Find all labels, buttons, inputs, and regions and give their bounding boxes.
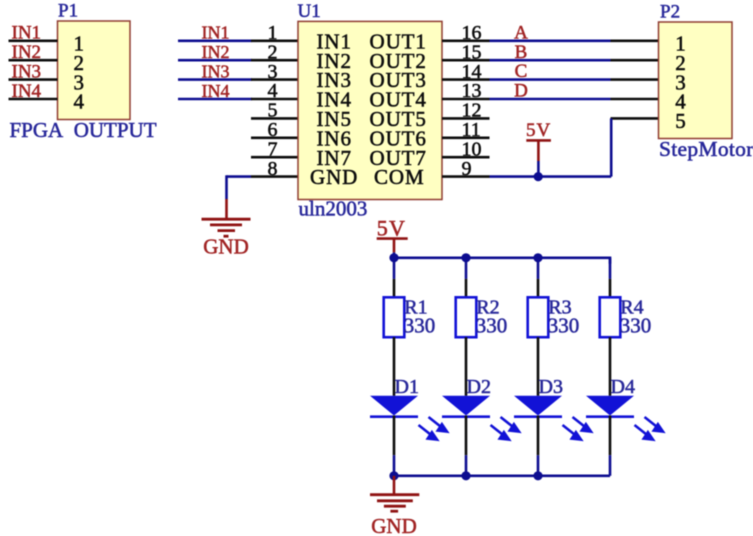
LED D3	[514, 396, 562, 416]
svg-text:4: 4	[74, 90, 85, 114]
LED D4 light arrows	[635, 417, 664, 440]
svg-text:9: 9	[462, 158, 472, 180]
wire COM net horizontal	[490, 175, 612, 178]
LED D4	[586, 396, 634, 416]
svg-text:GND: GND	[371, 514, 417, 536]
resistor R1	[384, 297, 405, 337]
U1 pin 7 stub	[251, 156, 298, 159]
wire P1 pin 4	[9, 98, 58, 101]
U1 pin 9 stub	[442, 175, 490, 178]
P2 pin 2 stub	[611, 59, 659, 62]
P2 pin 5 stub	[611, 117, 659, 120]
svg-text:D1: D1	[395, 376, 419, 398]
svg-text:330: 330	[620, 314, 652, 338]
LED D2 light arrows	[491, 417, 520, 440]
wire bottom rail	[394, 474, 610, 477]
resistor R4	[600, 297, 621, 337]
connector P1	[58, 21, 131, 120]
LED D2	[442, 396, 490, 416]
LED D3 light arrows	[563, 417, 592, 440]
svg-text:uln2003: uln2003	[299, 197, 368, 221]
U1 pin 15 stub	[442, 59, 490, 62]
svg-text:330: 330	[404, 314, 436, 338]
wire U1 pin 8 to ground	[227, 175, 252, 178]
svg-text:StepMotor: StepMotor	[659, 137, 753, 161]
wire top 5V rail	[394, 256, 610, 259]
resistor R2	[456, 297, 477, 337]
wire col 3 rail to R3	[537, 258, 540, 279]
svg-text:IN3: IN3	[12, 61, 42, 82]
connector P2	[659, 22, 733, 139]
svg-text:GND: GND	[203, 235, 249, 259]
U1 pin 10 stub	[442, 156, 490, 159]
wire P1 pin 3	[9, 78, 58, 81]
svg-text:IN2: IN2	[12, 42, 42, 63]
wire col 4 rail to R4	[609, 258, 612, 279]
svg-text:IN1: IN1	[12, 23, 42, 44]
svg-text:IN1: IN1	[202, 23, 230, 43]
op-amp U1 body	[298, 21, 442, 199]
svg-text:IN4: IN4	[12, 81, 42, 102]
junction top rail col 1	[389, 253, 398, 262]
svg-text:IN4: IN4	[202, 81, 230, 101]
P2 pin 4 stub	[611, 98, 659, 101]
svg-text:330: 330	[548, 314, 580, 338]
U1 pin 2 stub	[251, 59, 298, 62]
wire net IN4 to U1	[178, 98, 252, 101]
svg-text:5: 5	[675, 109, 686, 133]
wire R1 to D1	[393, 337, 396, 396]
svg-text:U1: U1	[298, 1, 321, 22]
junction top rail col 2	[461, 253, 470, 262]
ground GND (U1)	[225, 199, 228, 219]
ground GND (LED rail)	[393, 476, 396, 495]
wire R2 to D2	[465, 337, 468, 396]
wire net IN3 to U1	[178, 78, 252, 81]
wire R4 to D4	[609, 337, 612, 396]
U1 pin 4 stub	[251, 98, 298, 101]
svg-text:C: C	[515, 61, 528, 82]
wire net B	[490, 59, 611, 62]
svg-text:COM: COM	[374, 165, 425, 189]
svg-text:8: 8	[268, 158, 278, 180]
U1 pin 3 stub	[251, 78, 298, 81]
junction bottom rail col 1	[389, 471, 398, 480]
svg-text:D: D	[514, 81, 528, 102]
svg-text:5V: 5V	[377, 216, 406, 241]
LED D1	[370, 396, 418, 416]
svg-text:FPGA OUTPUT: FPGA OUTPUT	[10, 118, 157, 142]
svg-text:GND: GND	[310, 165, 358, 189]
wire R3 to D3	[537, 337, 540, 396]
svg-text:D2: D2	[467, 376, 491, 398]
U1 pin 13 stub	[442, 98, 490, 101]
U1 pin 6 stub	[251, 137, 298, 140]
LED D1 light arrows	[419, 417, 448, 440]
svg-text:B: B	[515, 42, 528, 63]
wire D2 to bottom rail	[465, 416, 468, 456]
wire net IN1 to U1	[178, 39, 252, 42]
wire net D	[490, 98, 611, 101]
svg-text:IN2: IN2	[202, 42, 230, 62]
wire net C	[490, 78, 611, 81]
svg-text:A: A	[514, 22, 528, 43]
wire col 1 rail to R1	[393, 258, 396, 279]
svg-text:D4: D4	[611, 376, 635, 398]
wire col4 top corner	[609, 257, 612, 264]
U1 pin 11 stub	[442, 137, 490, 140]
U1 pin 8 stub	[251, 175, 298, 178]
wire col 2 rail to R2	[465, 258, 468, 279]
wire P1 pin 2	[9, 59, 58, 62]
P2 pin 1 stub	[611, 39, 659, 42]
junction bottom rail col 3	[533, 471, 542, 480]
wire D4 to bottom rail	[609, 416, 612, 456]
wire COM net vertical	[610, 118, 613, 176]
U1 pin 16 stub	[442, 39, 490, 42]
svg-text:IN3: IN3	[202, 61, 230, 81]
U1 pin 5 stub	[251, 117, 298, 120]
wire D3 to bottom rail	[537, 416, 540, 456]
svg-text:P2: P2	[660, 2, 680, 23]
svg-text:5V: 5V	[526, 120, 551, 141]
U1 pin 14 stub	[442, 78, 490, 81]
resistor R3	[528, 297, 549, 337]
svg-text:330: 330	[476, 314, 508, 338]
U1 pin 1 stub	[251, 39, 298, 42]
wire net A	[490, 39, 611, 42]
junction top rail col 3	[533, 253, 542, 262]
svg-text:P1: P1	[58, 1, 78, 22]
svg-text:D3: D3	[539, 376, 563, 398]
wire P1 pin 1	[9, 39, 58, 42]
junction on COM net	[534, 172, 543, 181]
wire net IN2 to U1	[178, 59, 252, 62]
P2 pin 3 stub	[611, 78, 659, 81]
wire D1 to bottom rail	[393, 416, 396, 456]
junction bottom rail col 2	[461, 471, 470, 480]
U1 pin 12 stub	[442, 117, 490, 120]
